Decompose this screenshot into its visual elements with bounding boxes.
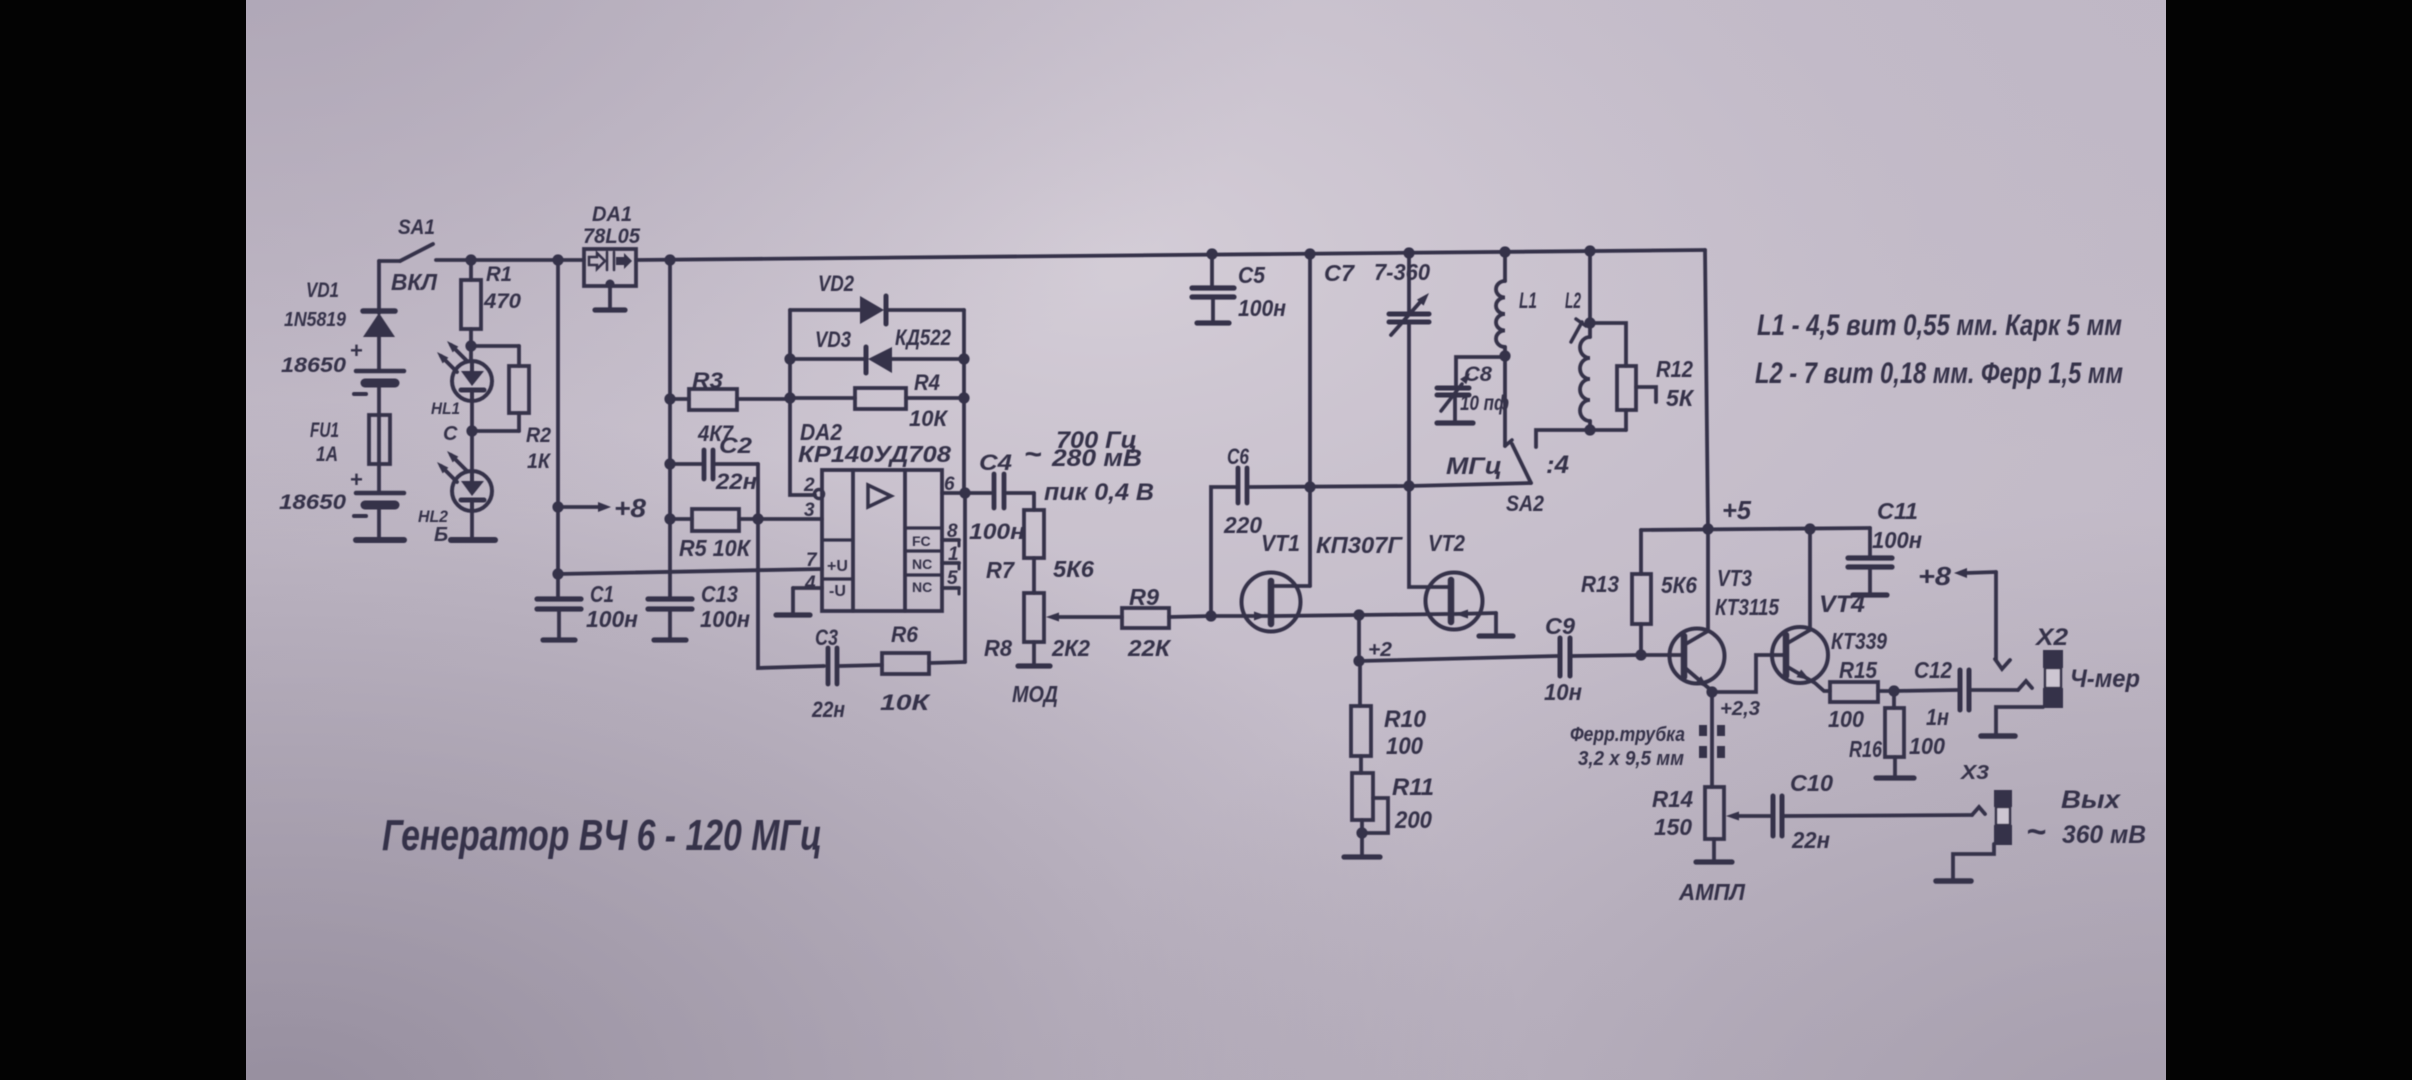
switch SA2 lever — [1512, 444, 1531, 483]
svg-text:R7: R7 — [986, 557, 1015, 583]
op-amp triangle — [868, 485, 891, 507]
svg-text:АМПЛ: АМПЛ — [1678, 879, 1746, 905]
node sources — [1353, 609, 1364, 620]
svg-text:R14: R14 — [1652, 786, 1693, 812]
svg-text:C2: C2 — [719, 433, 753, 458]
transistor VT4 КТ339 — [1772, 627, 1828, 683]
svg-text:+2,3: +2,3 — [1720, 698, 1760, 720]
svg-text:пик 0,4 В: пик 0,4 В — [1044, 479, 1154, 506]
svg-text:SA2: SA2 — [1506, 491, 1545, 516]
R14 wiper arrow — [1726, 812, 1739, 821]
wire L1 to C8 — [1456, 357, 1505, 386]
resistor R6 — [882, 653, 929, 674]
X2 tip contact tick — [1995, 659, 2010, 669]
svg-text:+U: +U — [827, 558, 848, 575]
svg-text:22н: 22н — [811, 697, 845, 722]
svg-text:360 мВ: 360 мВ — [2062, 821, 2146, 849]
transistor VT1 КП307Г — [1242, 573, 1301, 632]
R11 tap bracket — [1364, 798, 1388, 833]
svg-text:X2: X2 — [2034, 624, 2069, 651]
svg-text:1: 1 — [948, 544, 959, 565]
svg-text:DA1: DA1 — [592, 203, 632, 226]
resistor R5 — [670, 517, 692, 521]
node R15 right — [1888, 685, 1899, 696]
inductor L1 — [1503, 252, 1507, 281]
resistor R10 — [1358, 661, 1362, 706]
node tank VT2 drain — [1403, 480, 1414, 491]
op-amp internal partitions — [822, 538, 853, 541]
VT1 gate wire with arrow — [1211, 614, 1267, 618]
VT1 source wire — [1275, 615, 1359, 616]
emission arrows HL1 — [441, 356, 457, 372]
svg-text:SA1: SA1 — [398, 216, 435, 239]
svg-text:L1: L1 — [1519, 288, 1537, 313]
svg-text:VT3: VT3 — [1717, 565, 1752, 591]
node R3 left — [664, 393, 675, 404]
wire tank node to SA2 pole — [1409, 483, 1531, 486]
connector X3 jack — [1994, 790, 2012, 807]
svg-text:100н: 100н — [969, 519, 1025, 544]
node R1 bottom — [465, 340, 476, 351]
ground C1 — [557, 609, 561, 640]
svg-text:~: ~ — [1024, 438, 1042, 471]
svg-text:L2: L2 — [1565, 288, 1581, 313]
emission arrows HL2 — [441, 466, 457, 482]
capacitor C6 — [1211, 487, 1235, 616]
svg-text:X3: X3 — [1960, 762, 1989, 784]
node +8 tap — [552, 501, 563, 512]
node C2 left — [664, 458, 675, 469]
X2 ring contact tick — [2018, 681, 2032, 690]
svg-text:100н: 100н — [700, 606, 750, 632]
pin 5 stub — [942, 586, 959, 590]
variable capacitor C8 10пф — [1437, 386, 1469, 391]
node VT1 drain on rail — [1304, 248, 1315, 259]
wire +U rail to op-amp pin 7 — [558, 569, 822, 574]
VT2 gate ground — [1494, 613, 1498, 636]
svg-text:18650: 18650 — [279, 491, 346, 514]
R12 wiper stub — [1636, 387, 1656, 402]
svg-text:C4: C4 — [979, 450, 1012, 475]
svg-text:C10: C10 — [1790, 770, 1833, 796]
svg-text:5К6: 5К6 — [1053, 556, 1094, 582]
R8 wiper arrow — [1046, 613, 1059, 622]
wire R10-R11 — [1359, 756, 1363, 773]
resistor R11 rheostat — [1352, 773, 1373, 820]
svg-text:R11: R11 — [1392, 774, 1434, 801]
node C7 on rail — [1403, 247, 1414, 258]
svg-text:NC: NC — [912, 579, 932, 595]
VT2 source wire — [1359, 614, 1447, 615]
wire output node column — [962, 310, 966, 493]
wire VT1 drain riser — [1308, 254, 1312, 586]
node VD3 anode — [784, 353, 795, 364]
resistor R16 — [1892, 691, 1896, 708]
svg-text:10К: 10К — [880, 690, 931, 715]
node C6 gate tap — [1205, 610, 1216, 621]
wire SA1 to rail — [436, 258, 584, 262]
svg-text:+: + — [350, 467, 363, 492]
variable capacitor C7 — [1407, 253, 1411, 313]
svg-text:+8: +8 — [614, 493, 647, 523]
op-amp pin 4 ground — [793, 586, 822, 590]
ground C13 — [668, 609, 672, 640]
VT4 emitter with arrow — [1786, 666, 1830, 691]
svg-text:4: 4 — [804, 573, 816, 594]
transistor VT3 КТ3115 — [1670, 629, 1725, 684]
svg-text:R13: R13 — [1581, 571, 1619, 597]
LED HL2 — [470, 431, 474, 471]
photographed paper sheet — [246, 0, 2166, 1080]
svg-text:-U: -U — [829, 583, 846, 600]
capacitor C4 — [965, 491, 991, 495]
wire VT3 emitter column — [1710, 692, 1714, 787]
arrow +8 feed — [1954, 568, 1967, 578]
svg-text:3: 3 — [804, 500, 815, 521]
svg-text:Ч-мер: Ч-мер — [2070, 665, 2140, 693]
svg-text:МОД: МОД — [1012, 681, 1058, 707]
VT3 emitter with arrow — [1684, 667, 1712, 691]
node L1 bottom — [1499, 350, 1510, 361]
svg-text:L1 - 4,5 вит 0,55 мм. Карк 5 м: L1 - 4,5 вит 0,55 мм. Карк 5 мм — [1757, 309, 2122, 342]
svg-text:22н: 22н — [715, 469, 757, 494]
ferrite tube beads — [1699, 725, 1707, 736]
node L2 bottom — [1584, 424, 1595, 435]
ground battery — [356, 537, 404, 543]
node +8 column top — [552, 254, 563, 265]
svg-text:100н: 100н — [1872, 527, 1922, 553]
svg-text:NC: NC — [912, 556, 932, 572]
ground HL2 — [451, 537, 495, 543]
svg-text:FC: FC — [912, 533, 931, 549]
resistor R12 trimmer — [1590, 323, 1626, 366]
svg-text:C6: C6 — [1227, 444, 1250, 469]
svg-text:220: 220 — [1223, 512, 1262, 538]
svg-text:С: С — [443, 423, 458, 445]
node R11 tap — [1356, 827, 1367, 838]
svg-text:+8: +8 — [1918, 561, 1952, 591]
svg-text:7-360: 7-360 — [1374, 259, 1430, 285]
node R5 left — [664, 513, 675, 524]
op-amp DA2 КР140УД708 box — [822, 470, 942, 611]
X3 sleeve to ground — [1953, 844, 1994, 879]
ground R14 АМПЛ — [1712, 839, 1716, 862]
svg-text:C11: C11 — [1877, 498, 1918, 524]
svg-text:C7: C7 — [1324, 260, 1355, 286]
svg-text:Вых: Вых — [2061, 786, 2121, 814]
fuse FU1 — [369, 415, 390, 464]
svg-text:22н: 22н — [1791, 827, 1830, 853]
wire +5 branch column — [668, 260, 672, 598]
svg-text:5: 5 — [947, 568, 958, 589]
svg-text:Б: Б — [434, 524, 448, 546]
resistor R1 — [469, 260, 473, 280]
wire C2 right riser — [756, 464, 760, 519]
X3 tip contact tick — [1972, 807, 1985, 815]
svg-text:FU1: FU1 — [310, 419, 339, 442]
svg-text:C13: C13 — [701, 581, 738, 607]
capacitor C13 — [648, 596, 692, 601]
node +5 branch on rail — [664, 254, 675, 265]
ground R8 — [1032, 642, 1036, 666]
svg-text:3,2 х 9,5 мм: 3,2 х 9,5 мм — [1578, 748, 1684, 770]
svg-text:МГц: МГц — [1446, 453, 1502, 480]
svg-text:КД522: КД522 — [895, 325, 952, 350]
SA2 divider contact bracket — [1536, 430, 1590, 447]
svg-text:C5: C5 — [1238, 262, 1266, 288]
svg-text:R2: R2 — [526, 424, 551, 447]
node L1 top on rail — [1499, 246, 1510, 257]
svg-text:2: 2 — [803, 475, 815, 496]
ground R16 — [1893, 757, 1897, 778]
wire main top rail — [636, 250, 1705, 260]
svg-text:L2 - 7 вит 0,18 мм. Ферр 1,5 м: L2 - 7 вит 0,18 мм. Ферр 1,5 мм — [1755, 357, 2123, 390]
svg-text:КТ339: КТ339 — [1831, 628, 1887, 654]
wire to R2 top — [471, 344, 519, 348]
wire R7-R8 — [1032, 558, 1036, 593]
svg-text:VT2: VT2 — [1428, 530, 1465, 556]
node R4 right — [958, 392, 969, 403]
svg-text:10н: 10н — [1544, 679, 1582, 705]
wire R6 riser to pin 6 — [963, 493, 967, 662]
op-amp pin 2 inverting circle — [815, 490, 824, 499]
DA1 output arrow — [613, 252, 616, 270]
node C6 right — [1304, 481, 1315, 492]
svg-text:VD2: VD2 — [818, 271, 855, 296]
svg-text:10К: 10К — [909, 406, 948, 431]
capacitor C2 — [670, 462, 701, 466]
svg-text:150: 150 — [1654, 814, 1692, 840]
pin 8 stub — [942, 538, 959, 542]
wire FU1 to battery G2 — [377, 464, 381, 492]
svg-text:10 пф: 10 пф — [1460, 392, 1509, 415]
svg-text:18650: 18650 — [281, 354, 346, 377]
switch SA1 lever — [400, 244, 433, 261]
node VT4 collector on +5 rail — [1804, 523, 1815, 534]
svg-text:КП307Г: КП307Г — [1316, 532, 1403, 558]
svg-text:1А: 1А — [316, 443, 338, 466]
DA1 input arrow — [589, 253, 605, 269]
svg-text:R15: R15 — [1839, 657, 1878, 683]
svg-text:+2: +2 — [1368, 639, 1392, 661]
svg-text:7: 7 — [806, 550, 818, 571]
wire G2 to ground — [377, 509, 381, 538]
svg-text:R1: R1 — [486, 263, 512, 286]
svg-text:Ферр.трубка: Ферр.трубка — [1570, 724, 1685, 746]
transistor VT2 КП307Г — [1426, 573, 1483, 630]
svg-text:R4: R4 — [914, 370, 940, 395]
node pin 6 output — [959, 487, 970, 498]
node R13 bottom on base wire — [1635, 649, 1646, 660]
svg-text:280 мВ: 280 мВ — [1051, 445, 1142, 472]
svg-text:R5 10К: R5 10К — [679, 535, 752, 561]
pin 1 stub — [942, 561, 959, 565]
svg-text:200: 200 — [1394, 807, 1433, 834]
svg-text:5К6: 5К6 — [1661, 572, 1697, 598]
arrow +8 tap — [558, 505, 598, 509]
svg-text:100: 100 — [1386, 733, 1424, 760]
svg-text:1N5819: 1N5819 — [284, 309, 347, 331]
svg-text:+5: +5 — [1722, 495, 1752, 525]
svg-text:100н: 100н — [1238, 295, 1286, 321]
svg-text:C8: C8 — [1464, 363, 1492, 386]
potentiometer R14 — [1705, 787, 1724, 839]
svg-text:КР140УД708: КР140УД708 — [798, 441, 951, 467]
wire +8 to X2 tip — [1994, 572, 1998, 660]
svg-text:5К: 5К — [1666, 385, 1695, 411]
X2 sleeve to ground — [1996, 707, 2043, 734]
svg-text:470: 470 — [483, 290, 521, 313]
node C1 rail — [552, 568, 563, 579]
capacitor C3 — [826, 648, 831, 684]
wire G1 to FU1 — [377, 387, 381, 415]
node R1 top on rail — [465, 254, 476, 265]
ground R11 — [1360, 820, 1364, 857]
svg-text:+: + — [350, 338, 363, 363]
capacitor C5 — [1210, 254, 1214, 287]
wire +8 column — [556, 260, 560, 574]
svg-text:22К: 22К — [1127, 635, 1172, 661]
wire source to +2 node — [1357, 615, 1361, 661]
node +5 — [1702, 523, 1713, 534]
svg-text:8: 8 — [947, 521, 958, 542]
DA1 ground pin — [606, 280, 615, 289]
diode VD3 — [790, 357, 866, 361]
node L2 top on rail — [1584, 245, 1595, 256]
svg-text:R6: R6 — [891, 622, 919, 647]
svg-text:R3: R3 — [692, 368, 723, 393]
inductor L2 — [1588, 251, 1592, 337]
svg-text:VD3: VD3 — [815, 327, 851, 352]
svg-text:100: 100 — [1828, 706, 1864, 732]
capacitor C10 — [1771, 796, 1776, 836]
svg-text:VD1: VD1 — [306, 279, 339, 302]
resistor R13 — [1639, 530, 1643, 574]
wire HL2 to ground — [470, 511, 474, 538]
node VD2 cathode — [958, 353, 969, 364]
L2 tuning core mark — [1571, 322, 1582, 342]
connector X2 jack — [2043, 650, 2063, 668]
battery G1 18650 — [356, 369, 404, 374]
wire pin3 node riser to C3 — [758, 519, 824, 668]
wire L2 bottom to R12 — [1590, 428, 1626, 432]
VT2 gate wire with arrow — [1455, 613, 1496, 614]
resistor R15 — [1830, 682, 1878, 702]
wire C9 to VT3 base — [1641, 653, 1670, 657]
svg-text:R10: R10 — [1384, 706, 1427, 733]
svg-text:~: ~ — [2026, 813, 2046, 851]
svg-text:ВКЛ: ВКЛ — [391, 269, 438, 295]
resistor R8 trimmer — [1024, 593, 1044, 642]
svg-text:HL1: HL1 — [431, 399, 460, 418]
node C5 on rail — [1206, 248, 1217, 259]
svg-text:R8: R8 — [984, 635, 1012, 661]
wire VD1 to battery G1 — [377, 337, 381, 370]
svg-text:1н: 1н — [1926, 704, 1949, 730]
node +2 — [1353, 655, 1364, 666]
capacitor C11 — [1868, 528, 1872, 556]
resistor R9 — [1122, 608, 1169, 628]
capacitor C12 — [1894, 690, 1957, 691]
wire L1 to SA2 МГц contact — [1503, 356, 1507, 446]
svg-text::4: :4 — [1546, 451, 1569, 479]
wire rail right corner down — [1705, 250, 1708, 529]
svg-text:R16: R16 — [1849, 736, 1882, 762]
capacitor C9 — [1558, 638, 1563, 676]
wire +2 rail to C9 — [1359, 656, 1557, 661]
svg-text:100н: 100н — [586, 606, 638, 632]
svg-text:78L05: 78L05 — [583, 225, 640, 248]
wire inverting node column — [790, 310, 815, 495]
VT4 collector — [1786, 630, 1810, 644]
wire VT2 drain — [1409, 486, 1448, 587]
node R5 right — [752, 513, 763, 524]
node VT3 emitter — [1706, 686, 1717, 697]
svg-text:VT1: VT1 — [1261, 530, 1300, 556]
resistor R2 — [509, 366, 529, 413]
svg-text:C3: C3 — [815, 625, 838, 650]
resistor R4 — [790, 396, 855, 400]
svg-text:C9: C9 — [1545, 613, 1575, 639]
svg-text:1К: 1К — [527, 450, 552, 473]
resistor R7 — [1032, 493, 1036, 510]
svg-text:C12: C12 — [1914, 657, 1952, 683]
svg-text:R12: R12 — [1656, 356, 1693, 382]
wire battery column to SA1 — [377, 261, 381, 313]
svg-text:100: 100 — [1909, 733, 1945, 759]
wire +5 rail — [1641, 528, 1870, 530]
svg-text:R9: R9 — [1129, 584, 1159, 610]
node HL1 cathode — [470, 401, 474, 431]
regulator DA1 78L05 box — [584, 249, 636, 286]
wire VT3 emitter to VT4 base — [1712, 655, 1772, 692]
node R3-R4 — [784, 392, 795, 403]
diode VD2 — [790, 308, 860, 312]
VT3 collector — [1684, 631, 1708, 645]
svg-text:Генератор ВЧ 6 - 120 МГц: Генератор ВЧ 6 - 120 МГц — [382, 811, 822, 860]
battery G2 18650 — [356, 491, 404, 496]
LED HL1 — [469, 346, 473, 361]
diode VD1 — [363, 308, 395, 314]
svg-text:КТ3115: КТ3115 — [1715, 594, 1780, 620]
svg-text:C1: C1 — [590, 581, 614, 607]
resistor R3 — [670, 397, 689, 401]
ground C5 — [1211, 297, 1215, 323]
node L2-R12 top — [1584, 317, 1595, 328]
capacitor C1 — [556, 574, 560, 598]
svg-text:2К2: 2К2 — [1051, 635, 1090, 661]
